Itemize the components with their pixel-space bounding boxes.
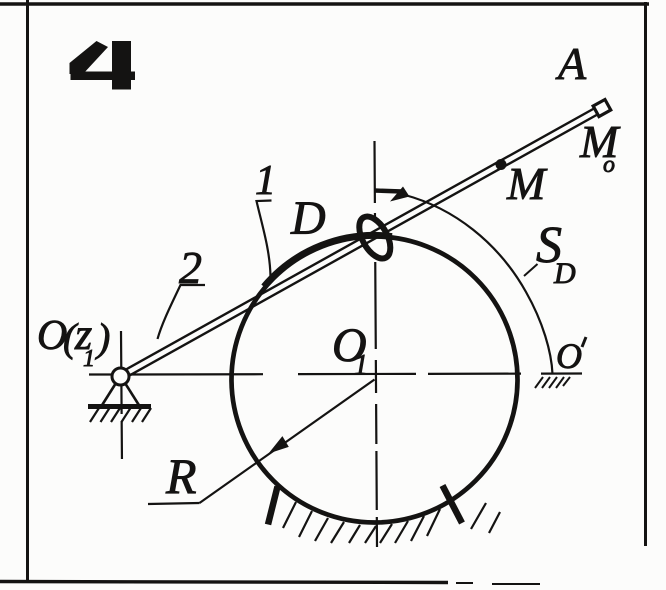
svg-text:D: D: [553, 257, 576, 290]
svg-text:1: 1: [354, 350, 368, 381]
svg-text:): ): [95, 315, 110, 360]
rod end square at A: [593, 100, 611, 117]
svg-text:1: 1: [83, 346, 95, 372]
R label underline: [148, 503, 200, 504]
radius line R from center to edge: [200, 380, 375, 504]
figure number 4 : horizontal bar: [71, 72, 136, 81]
leader line for label 1: [257, 201, 272, 277]
point M dot on rod: [496, 159, 507, 170]
right border line: [644, 2, 647, 546]
leader line for label 2: [158, 285, 206, 339]
pivot base line: [88, 404, 151, 409]
svg-text:1: 1: [255, 158, 276, 204]
svg-text:R: R: [165, 448, 197, 504]
bold hump arc of disk near D: [264, 235, 392, 286]
S label leader: [524, 264, 538, 276]
svg-text:A: A: [555, 38, 587, 89]
bottom border dash 3: [492, 583, 540, 585]
pivot triangle left leg: [102, 383, 117, 406]
horizontal centerline stub left of pivot: [89, 373, 113, 375]
ring D on rod: [353, 211, 397, 263]
rod (body 2) lower line: [122, 111, 604, 380]
O prime datum hatching: [535, 377, 570, 388]
disk circle (body 1): [232, 237, 518, 523]
bottom border line: [0, 582, 448, 583]
arc arrow shaft at top: [375, 191, 403, 192]
figure number 4 : diagonal stroke: [70, 41, 109, 74]
ground left support leg: [268, 487, 278, 525]
svg-text:o: o: [603, 152, 615, 178]
left border line: [26, 0, 29, 581]
vertical centerline through O1: [375, 141, 378, 547]
top border line: [0, 2, 649, 6]
svg-text:M: M: [506, 158, 548, 209]
rod (body 2) upper line: [119, 105, 601, 374]
ground hatching under disk: [283, 502, 500, 543]
svg-text:2: 2: [179, 242, 202, 293]
S_D trajectory arc: [405, 195, 553, 374]
pivot base hatching: [90, 408, 151, 422]
svg-text:D: D: [290, 192, 326, 245]
pivot O hinge circle: [112, 368, 129, 385]
pivot triangle right leg: [125, 383, 140, 406]
bottom border dash 2: [456, 582, 473, 584]
svg-text:O: O: [556, 336, 582, 376]
arc arrowhead: [390, 187, 410, 202]
horizontal centerline through O1 and O: [128, 374, 582, 375]
ground right support leg: [443, 486, 463, 524]
radius arrowhead: [269, 436, 289, 453]
figure number 4 : vertical stem: [112, 41, 131, 90]
vertical centerline through pivot O: [121, 331, 122, 466]
